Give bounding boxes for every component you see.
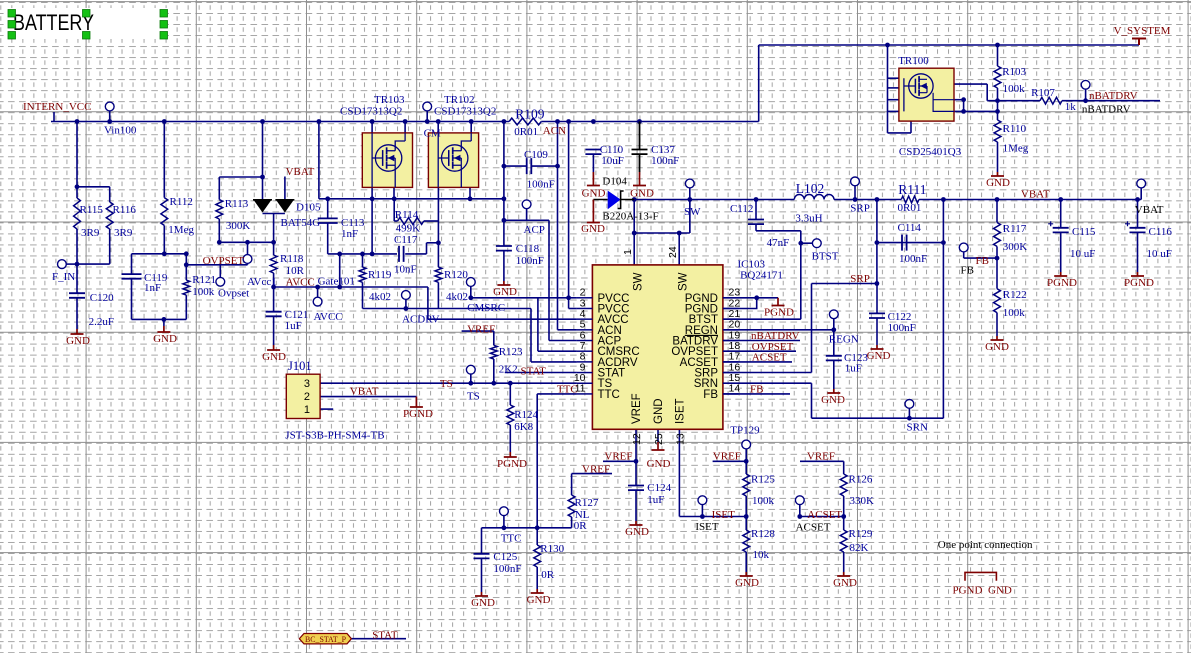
junction (186.3,253.8) [184, 251, 189, 256]
wire to R115/R116 top [76, 122, 78, 187]
port SRN [905, 400, 914, 409]
resistor R118 [270, 255, 277, 273]
wire ISET port stub [701, 505, 703, 517]
svg-text:GND: GND [153, 333, 177, 345]
wire to C120 [76, 264, 78, 293]
svg-text:CMSRC: CMSRC [467, 302, 505, 314]
pin 10 TS [577, 382, 593, 384]
junction (503.9,527.8) [502, 525, 507, 530]
svg-text:ISET: ISET [695, 521, 719, 533]
svg-text:0R: 0R [574, 520, 588, 532]
wire R114 left lead [394, 220, 397, 222]
svg-text:nBATDRV: nBATDRV [1082, 104, 1131, 116]
wire TR100 pin stub4 [888, 110, 899, 112]
svg-text:GND: GND [582, 188, 606, 200]
resistor R124 [507, 405, 514, 425]
capacitor C121 [266, 312, 282, 317]
svg-text:Vin100: Vin100 [104, 125, 137, 137]
svg-text:TTC: TTC [501, 533, 522, 545]
capacitor C120 [69, 293, 85, 298]
svg-text:R123: R123 [499, 346, 523, 358]
junction (997,258.1) [995, 256, 1000, 261]
svg-text:R116: R116 [113, 204, 137, 216]
junction (1085.6,100.7) [1083, 98, 1088, 103]
wire J101 pin1 stub [320, 408, 333, 410]
junction (887.5,45) [885, 43, 890, 48]
wire [329, 198, 331, 200]
svg-text:INTERN_VCC: INTERN_VCC [23, 101, 91, 113]
port CMSRC [466, 278, 475, 287]
wire pin23 PGND [723, 297, 757, 299]
svg-text:TS: TS [467, 391, 480, 403]
wire J101 pin2 VBAT [320, 396, 416, 398]
svg-text:1nF: 1nF [144, 282, 161, 294]
resistor R107 [1040, 97, 1062, 104]
svg-text:TR103: TR103 [374, 94, 405, 106]
svg-text:330K: 330K [850, 495, 875, 507]
ground pin25 [652, 442, 665, 450]
svg-text:FB: FB [703, 389, 718, 401]
svg-text:J101: J101 [288, 359, 312, 373]
svg-text:100k: 100k [752, 495, 775, 507]
wire to pin21 [723, 318, 801, 320]
wire R130 bottom lead [536, 567, 538, 589]
svg-text:499K: 499K [396, 223, 421, 235]
wire R122 bottom lead [996, 313, 998, 336]
junction (963.6,111.4) [961, 109, 966, 114]
svg-text:PGND: PGND [1047, 277, 1077, 289]
resistor R103 [994, 66, 1001, 88]
svg-text:GND: GND [581, 223, 605, 235]
op-amp-style IC U1 BQ24171 body [592, 265, 723, 429]
svg-text:C120: C120 [90, 292, 114, 304]
capacitor C116 polarized [1130, 228, 1146, 233]
svg-text:100nF: 100nF [493, 563, 521, 575]
wire pin1 riser [633, 200, 635, 265]
junction (702.4,516.5) [700, 514, 705, 519]
port SRP [851, 177, 860, 186]
wire VBAT to D105 right anode [284, 177, 286, 200]
pin 3 PVCC [577, 307, 593, 309]
wire VREF stub to R123 [462, 330, 494, 332]
resistor R130 [534, 545, 541, 567]
wire to gate node [964, 110, 998, 112]
junction (943.4,199.5) [941, 197, 946, 202]
port SW [685, 179, 694, 188]
port BTST [812, 239, 821, 248]
transistor TR100 CSD25401Q3 [899, 68, 954, 121]
wire R127 bottom lead [571, 517, 573, 528]
wire C115 top lead [1060, 200, 1062, 228]
svg-text:12: 12 [631, 433, 643, 445]
capacitor C118 [496, 246, 512, 251]
junction (503.9,198.8) [502, 196, 507, 201]
svg-text:100nF: 100nF [888, 322, 916, 334]
pin 17 ACSET [723, 361, 739, 363]
pin 6 ACP [577, 340, 593, 342]
wire R124 bottom lead [509, 425, 511, 452]
wire R112 top lead [163, 122, 165, 198]
svg-text:FB: FB [961, 265, 974, 277]
svg-text:TTC: TTC [557, 383, 578, 395]
wire AVCC node [274, 286, 428, 288]
wire ACP drop to pin6 [548, 220, 550, 340]
wire SW node [634, 199, 794, 201]
sheet entry BC_STAT_P [299, 634, 351, 644]
svg-text:GND: GND [986, 177, 1010, 189]
junction (470,198.8) [468, 196, 473, 201]
selection handles [8, 10, 16, 18]
wire gate node W1 [328, 253, 397, 255]
capacitor C109 [527, 158, 532, 174]
svg-text:100k: 100k [1003, 307, 1026, 319]
svg-text:R103: R103 [1002, 66, 1026, 78]
svg-text:SRN: SRN [907, 422, 928, 434]
svg-text:nBATDRV: nBATDRV [1089, 90, 1138, 102]
svg-text:One point connection: One point connection [938, 539, 1033, 551]
svg-text:GND: GND [625, 526, 649, 538]
svg-text:GND: GND [988, 585, 1012, 597]
wire C125 bottom lead [481, 558, 483, 592]
wire R115-R116 bottom tie [77, 263, 110, 265]
junction (503.9,220.3) [502, 218, 507, 223]
svg-text:100nF: 100nF [651, 155, 679, 167]
junction (394.2,198.8) [392, 196, 397, 201]
svg-text:SW: SW [684, 206, 701, 218]
wire CMSRC port stub [470, 286, 472, 297]
junction (634.2,199.5) [632, 197, 637, 202]
wire R125 bottom lead [745, 496, 747, 517]
svg-text:R114: R114 [395, 209, 419, 221]
wire SRP sense row [812, 283, 877, 285]
wire C113 lower lead [327, 223, 329, 254]
wire STAT to pin9 [505, 372, 577, 374]
wire C122 top lead [876, 284, 878, 314]
junction (833.8,329.8) [831, 327, 836, 332]
port AVCC [313, 297, 322, 306]
pin 15 SRN [723, 382, 739, 384]
pin 20 REGN [723, 329, 739, 331]
svg-text:R129: R129 [849, 528, 873, 540]
wire VREF label stub [603, 460, 636, 462]
wire TR102 drain stub1 [437, 122, 439, 133]
svg-text:3R9: 3R9 [114, 227, 133, 239]
wire R130 top lead [536, 528, 538, 545]
junction (219.3,242.3) [217, 240, 222, 245]
wire R116 top lead [109, 187, 111, 202]
svg-text:10uF: 10uF [601, 155, 624, 167]
wire [247, 263, 249, 265]
svg-text:R117: R117 [1003, 223, 1027, 235]
svg-text:TR100: TR100 [898, 55, 929, 67]
wire to pin5 [558, 329, 577, 331]
resistor R127 [568, 495, 575, 517]
wire AVCC top node [219, 241, 273, 243]
junction (756,199.5) [754, 197, 759, 202]
junction (746.2,516.5) [744, 514, 749, 519]
junction (273.6,242.3) [271, 240, 276, 245]
svg-text:GND: GND [527, 594, 551, 606]
svg-text:100nF: 100nF [516, 255, 544, 267]
wire pin16 SRP [723, 372, 812, 374]
wire SW port to pins [689, 188, 691, 233]
wire C112 bottom lead [755, 224, 757, 231]
junction (493.8,383.2) [491, 381, 496, 386]
wire nBATDRV stub [723, 340, 800, 342]
svg-text:47nF: 47nF [767, 237, 790, 249]
wire R126 bottom lead [843, 496, 845, 517]
junction (593.4,121.5) [591, 119, 596, 124]
svg-text:3R9: 3R9 [81, 227, 100, 239]
wire C109 left lead [504, 165, 527, 167]
wire TR100 pin stub1 [888, 77, 899, 79]
wire STAT out [351, 638, 406, 640]
svg-text:R121: R121 [192, 274, 216, 286]
wire C112 top lead [755, 200, 757, 220]
svg-text:VREF: VREF [807, 451, 835, 463]
junction (855,199.5) [853, 197, 858, 202]
wire D105 left anode riser [262, 122, 264, 200]
svg-text:VBAT: VBAT [350, 386, 379, 398]
svg-text:V_SYSTEM: V_SYSTEM [1114, 25, 1171, 37]
svg-text:TP129: TP129 [730, 425, 760, 437]
resistor R109 [509, 118, 541, 125]
junction (943.4,242.6) [941, 240, 946, 245]
svg-text:ACSET: ACSET [752, 352, 787, 364]
svg-text:100nF: 100nF [527, 179, 555, 191]
svg-text:4k02: 4k02 [446, 291, 468, 303]
junction (876.9,283.5) [875, 281, 880, 286]
junction (557.5,121.5) [555, 119, 560, 124]
wire R129 top lead [843, 517, 845, 531]
svg-text:GND: GND [66, 335, 90, 347]
svg-text:TS: TS [440, 378, 453, 390]
wire R118 bottom lead [273, 273, 275, 287]
wire R119 top lead [362, 254, 364, 267]
wire pin25 stub [657, 429, 659, 442]
svg-text:R124: R124 [514, 409, 538, 421]
svg-text:100k: 100k [192, 286, 215, 298]
wire gate node row [987, 100, 1040, 102]
wire INTERN_VCC label tick [53, 112, 55, 122]
svg-text:VBAT: VBAT [1021, 189, 1050, 201]
svg-text:Gate101: Gate101 [318, 276, 355, 288]
junction (997.5,111.4) [995, 109, 1000, 114]
wire SRN riser to VBAT side [942, 200, 944, 419]
resistor R112 [161, 198, 168, 226]
svg-text:VREF: VREF [631, 393, 643, 424]
svg-text:PGND: PGND [497, 458, 527, 470]
ground at D104 anode [587, 200, 600, 223]
svg-text:R107: R107 [1031, 87, 1055, 99]
wire TR103 source stub [393, 187, 395, 198]
wire C122 bottom lead [876, 318, 878, 345]
wire R112 bottom lead [163, 225, 165, 253]
ground C123 [827, 389, 840, 393]
resistor R116 [106, 202, 113, 229]
svg-text:10nF: 10nF [394, 264, 417, 276]
junction (164.3,253.8) [162, 251, 167, 256]
svg-text:FB: FB [750, 383, 763, 395]
wire gnd tie [132, 318, 187, 320]
ground C118 [497, 281, 510, 285]
svg-text:D104: D104 [602, 176, 627, 188]
wire TR100 pin stub2 [888, 87, 899, 89]
wire R121 top lead [185, 254, 187, 280]
resistor R115 [74, 198, 81, 229]
svg-text:R119: R119 [368, 269, 392, 281]
junction (317.6,287) [315, 285, 320, 290]
junction (557.5,166.1) [555, 164, 560, 169]
svg-text:PGND: PGND [764, 307, 794, 319]
port F_IN [58, 260, 67, 269]
junction (362.5,253.9) [360, 252, 365, 257]
svg-text:F_IN: F_IN [52, 271, 75, 283]
wire TTC to pin11 [537, 393, 577, 395]
svg-text:B220A-13-F: B220A-13-F [602, 211, 658, 223]
wire R119 bottom lead [362, 282, 364, 308]
svg-text:VREF: VREF [604, 451, 632, 463]
port ACDRV [402, 291, 411, 300]
junction (372.1,198.8) [370, 196, 375, 201]
pin 9 STAT [577, 372, 593, 374]
wire riser to top rail [758, 45, 760, 122]
wire R114 to R120 node [437, 221, 439, 243]
svg-text:1uF: 1uF [647, 494, 664, 506]
junction (537.2,527.8) [535, 525, 540, 530]
junction (339.7,253.9) [337, 252, 342, 257]
capacitor C123 [826, 356, 842, 361]
wire F_IN stub [66, 263, 77, 265]
junction (997.5,45) [995, 43, 1000, 48]
wire C119 bottom [131, 279, 133, 320]
diode D105 BAT54G [253, 199, 272, 201]
wire SRN row [812, 417, 944, 419]
resistor R120 [435, 267, 442, 282]
wire TTC port stub [503, 516, 505, 528]
junction (689.8,199.5) [687, 197, 692, 202]
wire ACN riser [557, 122, 559, 330]
ground C119 node [157, 326, 170, 332]
svg-text:AVcc1: AVcc1 [247, 276, 277, 288]
junction (262.5,177) [260, 175, 265, 180]
wire ACP port stub [526, 209, 528, 221]
svg-text:STAT: STAT [372, 629, 398, 641]
ground PGND C115 [1054, 272, 1067, 276]
svg-text:REGN: REGN [829, 334, 859, 346]
wire right stub tie [963, 100, 965, 112]
wire to pin3 [569, 308, 577, 310]
wire C123 to gnd [833, 360, 835, 389]
resistor R129 [840, 530, 847, 552]
junction (438.2,121.5) [436, 119, 441, 124]
svg-text:SRP: SRP [850, 273, 870, 285]
junction (77,186.8) [75, 184, 80, 189]
svg-text:24: 24 [667, 246, 679, 258]
wire SRP port stub [854, 181, 856, 199]
wire R113 to D105 anode [219, 176, 262, 178]
port TS [466, 365, 475, 374]
pin 4 AVCC [577, 318, 593, 320]
wire OVPSET to R113 node [247, 242, 249, 255]
wire SRN drop [811, 383, 813, 418]
wire to pin2 [569, 297, 577, 299]
wire R117 top lead [996, 200, 998, 223]
svg-text:GND: GND [833, 577, 857, 589]
svg-text:PGND: PGND [403, 408, 433, 420]
wire R123 top lead [493, 331, 495, 345]
svg-text:1k: 1k [1065, 101, 1077, 113]
wire R116 bottom lead [109, 229, 111, 264]
wire TR102 source stub [469, 187, 471, 198]
wire pin12 VREF drop [635, 429, 637, 485]
wire C125 top lead [481, 528, 483, 554]
wire TR102 gate drop [437, 187, 439, 221]
svg-text:AVCC: AVCC [286, 277, 315, 289]
wire to BTST riser [756, 230, 801, 232]
wire C116 bottom lead [1137, 232, 1139, 272]
svg-text:BC_STAT_P: BC_STAT_P [305, 634, 346, 644]
wire to C119 [131, 254, 133, 274]
junction (470.8,297.8) [468, 295, 473, 300]
resistor R122 [994, 289, 1001, 313]
svg-text:VREF: VREF [467, 324, 495, 336]
junction (639.5,121.5) [637, 119, 642, 124]
wire OVPSET label wire [186, 264, 247, 266]
ground R129 [837, 572, 850, 576]
junction (997,199.5) [995, 197, 1000, 202]
svg-text:R130: R130 [540, 543, 564, 555]
svg-text:C114: C114 [898, 222, 922, 234]
wire TR100 gate out [934, 83, 988, 85]
junction (470.8,383.2) [468, 381, 473, 386]
svg-text:CSD17313Q2: CSD17313Q2 [434, 106, 496, 118]
junction (503.9,166.1) [502, 164, 507, 169]
svg-text:3: 3 [304, 378, 310, 390]
port FB [959, 243, 968, 252]
junction (372.1,121.5) [370, 119, 375, 124]
wire ACDRV drop to pin8 [530, 309, 532, 362]
svg-text:AVCC: AVCC [314, 311, 343, 323]
wire C113 top lead [327, 199, 329, 219]
ground PGND R124 [504, 452, 517, 457]
resistor R113 [216, 200, 223, 219]
capacitor C117 [399, 246, 404, 262]
wire R126 top lead [843, 461, 845, 474]
wire PVCC riser [568, 122, 570, 309]
ground R122 [991, 336, 1004, 340]
wire Gate101 riser [339, 254, 341, 287]
svg-text:ACSET: ACSET [807, 509, 842, 521]
svg-text:CSD17313Q2: CSD17313Q2 [340, 106, 402, 118]
svg-text:OVPSET: OVPSET [203, 255, 245, 267]
junction (186.3,264.8) [184, 262, 189, 267]
svg-text:JST-S3B-PH-SM4-TB: JST-S3B-PH-SM4-TB [285, 430, 384, 442]
svg-text:2: 2 [304, 391, 310, 403]
svg-text:CSD25401Q3: CSD25401Q3 [899, 146, 962, 158]
svg-text:14: 14 [729, 383, 741, 395]
svg-text:4k02: 4k02 [369, 291, 391, 303]
svg-text:R122: R122 [1003, 289, 1027, 301]
wire C121 to gnd [273, 316, 275, 345]
wire C124 bottom lead [635, 490, 637, 521]
svg-text:2.2uF: 2.2uF [89, 316, 114, 328]
pin 19 BATDRV [723, 340, 739, 342]
wire R128 top lead [745, 517, 747, 531]
svg-text:R111: R111 [898, 182, 926, 197]
wire R123 bottom lead [493, 359, 495, 383]
svg-text:R125: R125 [751, 474, 775, 486]
